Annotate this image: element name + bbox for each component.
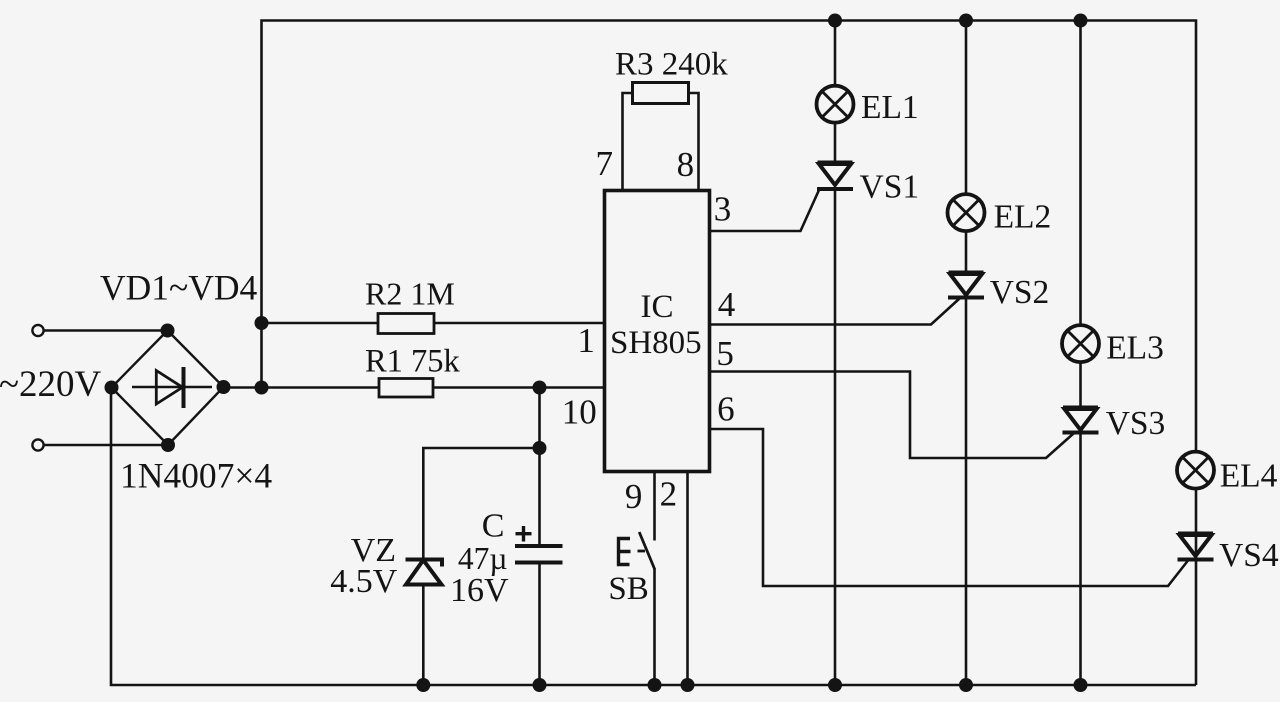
wire lamp branch EL2 bbox=[965, 21, 968, 273]
thyristor VS2 bbox=[948, 273, 984, 298]
node bus VZ bbox=[416, 678, 430, 692]
wire IC pin4 to VS2 gate bbox=[711, 299, 960, 325]
bridge rectifier VD1~VD4 bbox=[112, 331, 224, 446]
svg-text:IC: IC bbox=[641, 289, 674, 325]
wire zener to bottom bus bbox=[422, 585, 425, 686]
op-amp / IC U1 box SH805 bbox=[605, 191, 710, 472]
svg-text:4.5V: 4.5V bbox=[330, 563, 398, 600]
wire IC pin7 to R3 bbox=[623, 93, 633, 189]
node bus SB bbox=[648, 678, 662, 692]
resistor R2 bbox=[378, 314, 434, 334]
wire switch to bottom bus bbox=[653, 569, 656, 685]
svg-text:8: 8 bbox=[677, 145, 695, 184]
thyristor VS4 bbox=[1178, 534, 1214, 560]
capacitor plus sign bbox=[516, 526, 532, 542]
node R1 tap bbox=[255, 381, 269, 395]
svg-text:6: 6 bbox=[717, 390, 735, 429]
wire AC bottom terminal to bridge bbox=[45, 444, 169, 447]
wire IC pin8 to R3 bbox=[689, 93, 699, 189]
wire IC pin2 to bottom bus bbox=[686, 473, 689, 685]
wire AC top terminal to bridge bbox=[45, 329, 168, 332]
svg-text:1N4007×4: 1N4007×4 bbox=[120, 456, 272, 496]
svg-text:10: 10 bbox=[562, 393, 597, 432]
node bridge bottom bbox=[161, 438, 175, 452]
node bus pin2 bbox=[681, 678, 695, 692]
svg-text:4: 4 bbox=[718, 285, 736, 324]
lamp EL2 bbox=[948, 194, 985, 231]
node bridge right bbox=[217, 380, 231, 394]
svg-text:SH805: SH805 bbox=[610, 325, 702, 361]
wire node to capacitor branch bbox=[538, 388, 541, 546]
wire IC pin6 to VS4 gate bbox=[711, 429, 1188, 586]
svg-text:VD1~VD4: VD1~VD4 bbox=[100, 268, 258, 308]
lamp EL4 bbox=[1177, 452, 1214, 489]
wire bottom bus bbox=[111, 388, 1196, 686]
wire node to zener branch bbox=[423, 448, 539, 560]
svg-text:EL2: EL2 bbox=[994, 199, 1052, 236]
svg-text:VS4: VS4 bbox=[1219, 537, 1279, 574]
node bus EL2 bbox=[959, 678, 973, 692]
svg-text:VS1: VS1 bbox=[860, 169, 920, 206]
svg-text:5: 5 bbox=[716, 334, 734, 373]
terminal top bbox=[32, 325, 43, 336]
svg-text:EL4: EL4 bbox=[1220, 458, 1278, 495]
thyristor VS1 bbox=[817, 163, 853, 190]
svg-text:47µ: 47µ bbox=[458, 541, 508, 576]
wire bridge right vertex to R1 line bbox=[224, 386, 380, 389]
node top bus EL1 bbox=[828, 14, 842, 28]
node R2 tap bbox=[255, 316, 269, 330]
wire lamp branch EL1 bbox=[834, 21, 837, 163]
svg-text:16V: 16V bbox=[450, 572, 509, 609]
switch SB bbox=[619, 532, 655, 570]
thyristor VS3 bbox=[1063, 408, 1099, 433]
capacitor C bbox=[515, 546, 563, 563]
svg-text:C: C bbox=[482, 508, 505, 545]
wire IC pin5 to VS3 gate bbox=[711, 372, 1074, 459]
node bus EL1 bbox=[828, 678, 842, 692]
terminal bottom bbox=[32, 439, 43, 450]
node bridge top bbox=[161, 324, 175, 338]
wire IC pin9 to switch bbox=[653, 473, 656, 541]
svg-text:~220V: ~220V bbox=[0, 364, 102, 405]
svg-text:EL3: EL3 bbox=[1106, 330, 1164, 367]
node C top bbox=[533, 381, 547, 395]
svg-text:SB: SB bbox=[608, 571, 648, 607]
wire R2 to IC pin1 bbox=[434, 322, 604, 325]
node bus EL3 bbox=[1074, 678, 1088, 692]
svg-text:R2 1M: R2 1M bbox=[365, 276, 455, 312]
resistor R1 bbox=[379, 379, 433, 398]
svg-text:2: 2 bbox=[660, 475, 678, 514]
wire capacitor to bottom bus bbox=[538, 563, 541, 685]
node zener tap bbox=[533, 441, 547, 455]
svg-text:7: 7 bbox=[596, 144, 614, 183]
svg-text:VS3: VS3 bbox=[1106, 405, 1166, 442]
svg-text:R1 75k: R1 75k bbox=[365, 344, 461, 380]
wire R2 to node bbox=[262, 322, 379, 325]
lamp EL3 bbox=[1062, 325, 1099, 362]
svg-text:R3 240k: R3 240k bbox=[615, 47, 728, 83]
node top bus EL3 bbox=[1074, 14, 1088, 28]
wire top bus bbox=[262, 21, 1197, 686]
wire lamp branch EL3 bbox=[1079, 21, 1082, 408]
node bus C bbox=[533, 678, 547, 692]
svg-text:1: 1 bbox=[577, 321, 595, 360]
svg-text:3: 3 bbox=[714, 190, 732, 229]
wire IC pin3 to VS1 gate bbox=[711, 190, 819, 231]
svg-text:9: 9 bbox=[625, 477, 643, 516]
node bridge left bbox=[105, 381, 119, 395]
svg-text:VS2: VS2 bbox=[990, 274, 1050, 311]
lamp EL1 bbox=[817, 86, 854, 123]
wire R1 to IC pin10 bbox=[433, 386, 605, 389]
zener diode VZ bbox=[406, 560, 443, 585]
node top bus EL2 bbox=[959, 14, 973, 28]
resistor R3 bbox=[633, 83, 689, 104]
svg-text:EL1: EL1 bbox=[861, 89, 919, 126]
